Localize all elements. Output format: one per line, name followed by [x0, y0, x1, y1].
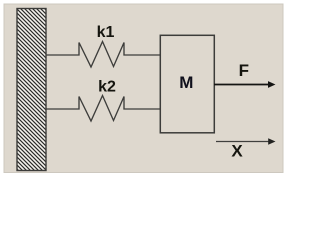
svg-text:M: M — [179, 73, 193, 92]
spring k2 — [46, 96, 160, 122]
displacement arrow X — [216, 141, 269, 143]
spring k1 — [46, 42, 160, 68]
svg-text:X: X — [231, 142, 243, 161]
background panel — [4, 4, 283, 173]
svg-text:k2: k2 — [98, 78, 116, 95]
fixed wall (hatched support) — [17, 9, 46, 171]
svg-text:F: F — [239, 61, 249, 80]
svg-text:k1: k1 — [97, 24, 115, 41]
force arrow F — [214, 84, 269, 86]
mass M box — [160, 35, 214, 133]
